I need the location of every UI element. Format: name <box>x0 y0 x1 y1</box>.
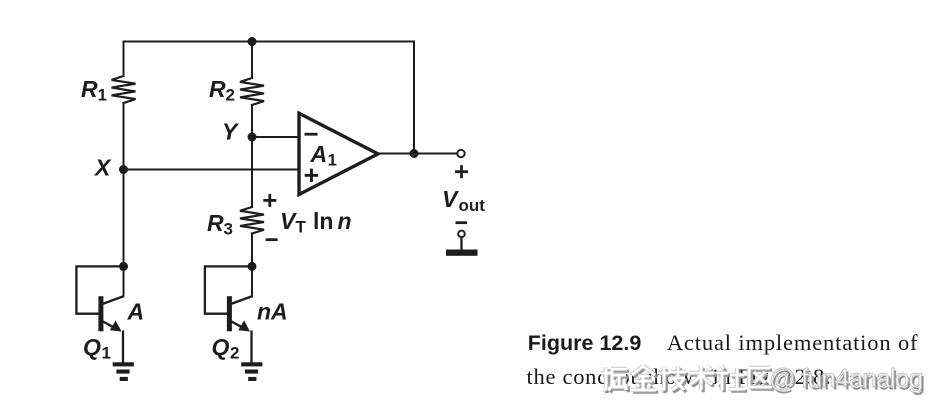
Q2 collector junction dot <box>248 262 257 271</box>
svg-text:nA: nA <box>257 299 288 325</box>
Vout minus sign <box>456 221 468 224</box>
resistor R1 <box>112 76 136 103</box>
wire R3 bottom to Q2 collector <box>251 234 253 297</box>
Q1 collector wire <box>103 296 124 304</box>
svg-text:3: 3 <box>224 220 233 239</box>
svg-text:V: V <box>280 208 297 234</box>
wire node X to op-amp plus input <box>124 169 300 171</box>
svg-text:ln: ln <box>313 208 333 234</box>
node Y junction dot <box>248 133 257 142</box>
Q1 base bar <box>98 296 103 331</box>
svg-text:out: out <box>459 196 486 215</box>
op-amp plus sign <box>305 169 318 182</box>
resistor R3 <box>240 207 264 234</box>
svg-text:V: V <box>442 186 459 212</box>
wire top rail <box>124 41 415 43</box>
plus sign above R3 <box>263 194 276 207</box>
junction dot top rail / R2 <box>248 37 257 46</box>
watermark @fun4analog <box>769 365 922 391</box>
resistor R2 <box>240 78 264 105</box>
wire R1 bottom to Q1 collector <box>123 103 125 296</box>
Q2 emitter arrowhead <box>238 320 250 331</box>
svg-text:Y: Y <box>222 119 240 145</box>
output junction dot <box>410 149 419 158</box>
svg-text:1: 1 <box>98 86 107 105</box>
caption line 2 <box>527 366 832 389</box>
wire R1 top lead <box>123 42 125 77</box>
wire R2 top lead <box>251 42 253 79</box>
watermark cjk shadow layer <box>603 368 774 392</box>
svg-text:2: 2 <box>226 86 235 105</box>
svg-text:A: A <box>310 141 328 167</box>
watermark cjk outline layer <box>601 366 772 390</box>
svg-text:T: T <box>296 218 307 237</box>
svg-text:1: 1 <box>102 344 111 363</box>
Q2 collector wire <box>232 296 253 304</box>
Q1 emitter wire <box>103 322 115 329</box>
Q2 base bar <box>227 296 232 331</box>
wire feedback right side <box>413 42 415 154</box>
svg-text:R: R <box>209 76 226 102</box>
svg-text:R: R <box>81 76 98 102</box>
caption line 1 <box>528 332 919 355</box>
ground Q2 <box>241 362 262 381</box>
Q1 collector junction dot <box>119 262 128 271</box>
Q2 emitter wire <box>232 322 244 329</box>
Q1 emitter arrowhead <box>110 320 122 331</box>
Vout plus sign <box>455 165 468 178</box>
wire Y to op-amp minus input <box>252 136 299 138</box>
wire R2 bottom through Y to R3 <box>251 105 253 207</box>
watermark 掘金技术社区 strokes <box>600 364 790 398</box>
output terminal open circle <box>457 150 464 157</box>
Q1 base-collector loop wire <box>76 266 123 313</box>
Vout ground stub <box>460 237 462 249</box>
node X junction dot <box>119 165 128 174</box>
op-amp A1 triangle <box>299 113 378 194</box>
watermark cjk white core layer <box>601 366 772 390</box>
Q2 base-collector loop wire <box>205 266 252 313</box>
Vout ground terminal circle <box>458 231 465 238</box>
svg-text:X: X <box>93 155 112 181</box>
Vout ground bar <box>446 250 478 256</box>
svg-text:2: 2 <box>230 344 239 363</box>
minus sign below R3 <box>266 238 278 241</box>
svg-text:Q: Q <box>212 334 230 360</box>
Q1 emitter lead <box>122 331 124 363</box>
svg-text:A: A <box>127 299 145 325</box>
op-amp minus sign <box>305 133 318 136</box>
ground Q1 <box>113 362 134 381</box>
svg-text:R: R <box>207 210 224 236</box>
transistor Q1 <box>76 266 123 362</box>
circuit text labels <box>81 76 485 363</box>
Q2 emitter lead <box>250 331 252 363</box>
wire op-amp output <box>378 153 457 155</box>
svg-text:n: n <box>338 208 352 234</box>
transistor Q2 <box>205 266 252 362</box>
svg-text:Q: Q <box>83 334 101 360</box>
svg-text:1: 1 <box>328 151 337 170</box>
